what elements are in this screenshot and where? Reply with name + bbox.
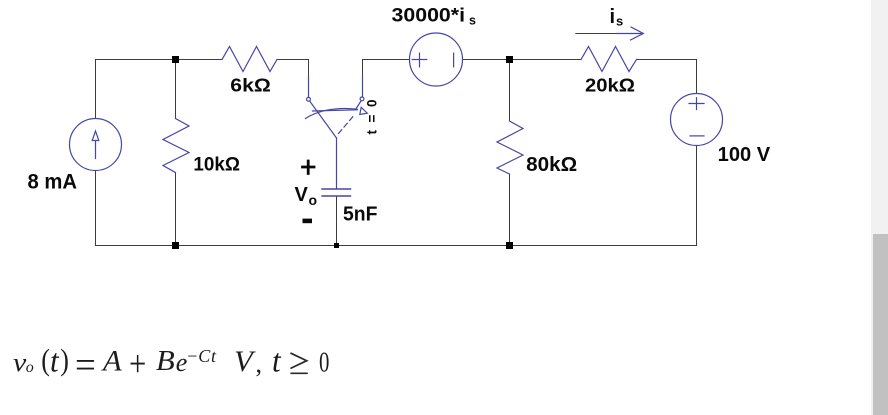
resistor R3 20k zigzag (581, 47, 637, 72)
resistor R2 10k zigzag (163, 119, 189, 173)
equation geq symbol (290, 352, 312, 378)
label is (610, 6, 624, 28)
capacitor C1 5nF (322, 138, 351, 196)
wire left vertical upper (95, 60, 97, 119)
wire 6k to switch corner (277, 60, 309, 77)
wire bottom horizontal (96, 245, 697, 247)
wire dep source to junction B (463, 59, 582, 61)
label plus of Vo (303, 161, 315, 174)
node junction dot top A (172, 56, 179, 63)
label 8 mA (28, 170, 78, 194)
wire 80k branch upper (509, 60, 511, 122)
dependent source E1 30000*is circle (410, 33, 463, 86)
label 80k (526, 153, 577, 176)
wire 100V source to bottom right corner (696, 146, 698, 246)
wire 10k branch lower (175, 173, 177, 246)
wire is-arrow shaft gray part (576, 33, 617, 35)
wire capacitor to bottom (336, 197, 338, 246)
wire 80k branch lower (509, 174, 511, 246)
wire left vertical lower (95, 171, 97, 246)
scrollbar thumb (873, 234, 888, 415)
node junction dot bottom C (334, 243, 339, 248)
current source I1 8mA circle (70, 119, 122, 171)
wire switch right terminal to top (363, 60, 410, 77)
switch SW1 (306, 76, 368, 138)
wire top-left horizontal (96, 59, 223, 61)
label 30000*is (392, 5, 477, 28)
label t = 0 (365, 100, 380, 135)
is current arrow blue part (617, 27, 643, 40)
node junction dot bottom A (172, 242, 179, 249)
resistor R4 80k zigzag (497, 121, 523, 174)
label minus of Vo (303, 219, 313, 224)
label 10k (193, 154, 240, 176)
label 5nF (343, 204, 378, 226)
label 100 V (718, 144, 771, 166)
node junction dot bottom B (506, 242, 513, 249)
label 6k (230, 76, 270, 96)
voltage source V1 100V circle (671, 94, 723, 146)
node junction dot top B (506, 56, 513, 63)
label Vo (295, 184, 318, 208)
scrollbar track (871, 0, 888, 415)
wire 20k to right corner (637, 60, 697, 94)
wire 10k branch upper (175, 60, 177, 119)
label 20k (585, 75, 635, 95)
resistor R1 6k zigzag (222, 47, 277, 72)
